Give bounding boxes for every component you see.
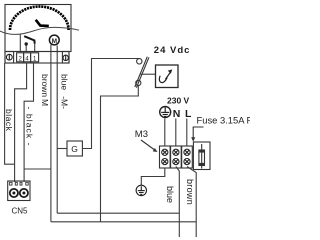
dial arc bbox=[10, 6, 69, 30]
wire terminal4 to CN5 left bbox=[15, 63, 27, 182]
wire N entry bbox=[175, 119, 177, 147]
svg-text:blue: blue bbox=[165, 186, 175, 203]
svg-text:M3: M3 bbox=[135, 129, 148, 140]
switch contact wire node 2 bbox=[19, 35, 21, 52]
svg-text:230 V: 230 V bbox=[167, 96, 190, 106]
water level wavy line bbox=[0, 27, 79, 34]
strip right screw bbox=[62, 52, 69, 64]
fuse leader arrow bbox=[193, 127, 203, 138]
wire CN5 right branch bbox=[24, 168, 51, 170]
wire black left bbox=[5, 63, 15, 164]
terminal 4 bbox=[24, 53, 31, 62]
svg-text:24 Vdc: 24 Vdc bbox=[154, 45, 191, 56]
wire brown motor leg bbox=[50, 63, 52, 222]
actuator link bbox=[141, 73, 156, 75]
switch blade wire bbox=[34, 44, 36, 52]
wire G right to switch bbox=[82, 59, 139, 149]
svg-text:blue: blue bbox=[60, 74, 70, 90]
thermostat device box bbox=[5, 5, 71, 52]
svg-text:brown: brown bbox=[185, 179, 195, 205]
M3 terminal block column L bbox=[182, 146, 193, 168]
terminal 1 bbox=[31, 53, 39, 62]
24V switch top contact bbox=[137, 59, 142, 64]
brown bus H2 bbox=[51, 221, 196, 223]
switch blade double line bbox=[135, 57, 148, 87]
svg-text:L: L bbox=[185, 108, 192, 120]
svg-text:- black -: - black - bbox=[25, 107, 35, 147]
block screws bbox=[162, 149, 190, 165]
svg-text:brown: brown bbox=[40, 74, 50, 97]
terminal 2 bbox=[17, 53, 24, 62]
L wire jog down bbox=[187, 167, 196, 238]
svg-text:M: M bbox=[52, 38, 57, 45]
wire earth entry bbox=[164, 119, 166, 147]
ground symbol circle bbox=[136, 185, 146, 195]
wire terminal1 jog bbox=[24, 63, 33, 182]
svg-text:black: black bbox=[4, 109, 14, 132]
M3 leader arrow bbox=[141, 140, 154, 150]
wire L entry bbox=[186, 119, 188, 147]
svg-text:CN5: CN5 bbox=[12, 207, 29, 216]
svg-text:G: G bbox=[71, 144, 78, 154]
M3 terminal block column earth bbox=[160, 146, 171, 168]
svg-text:N: N bbox=[173, 108, 181, 120]
M3 terminal block column N bbox=[171, 146, 182, 168]
wire blue motor leg bbox=[56, 63, 58, 213]
earth wire to ground bbox=[141, 168, 165, 185]
wire G left bbox=[57, 148, 67, 150]
CN5 connector bbox=[8, 181, 30, 201]
switch pivot wire bbox=[25, 46, 27, 53]
24Vdc controller box bbox=[156, 65, 179, 88]
fuse 3.15A F bbox=[201, 144, 203, 169]
terminal strip bbox=[5, 52, 69, 64]
N wire jog down bbox=[176, 167, 179, 238]
earth symbol top bbox=[160, 107, 171, 118]
switch pivot dot bbox=[25, 42, 28, 45]
motor M circle bbox=[49, 35, 59, 45]
svg-text:Fuse 3.15A F: Fuse 3.15A F bbox=[197, 114, 251, 125]
svg-text:-M-: -M- bbox=[60, 96, 70, 109]
24V switch bottom contact bbox=[136, 80, 141, 85]
G box bbox=[67, 141, 82, 156]
switch blade bbox=[24, 36, 35, 43]
motor legs bbox=[50, 45, 52, 63]
svg-text:M: M bbox=[40, 99, 50, 106]
blue bus H1 bbox=[57, 212, 179, 214]
needle bbox=[36, 20, 49, 26]
fuse holder bbox=[193, 142, 210, 170]
wire switch bottom down bbox=[101, 86, 139, 222]
strip left screw bbox=[5, 52, 14, 64]
